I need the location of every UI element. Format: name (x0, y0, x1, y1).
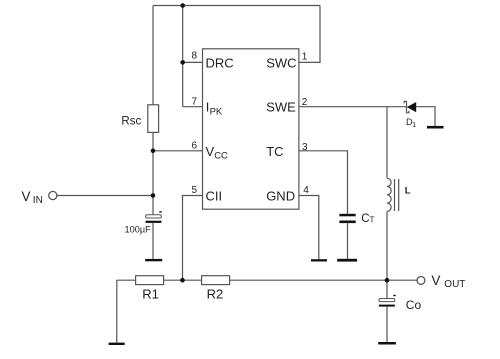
svg-text:SWC: SWC (266, 55, 296, 70)
svg-text:Co: Co (406, 298, 422, 312)
svg-text:7: 7 (192, 96, 198, 107)
svg-text:V: V (431, 273, 440, 288)
svg-text:CII: CII (206, 188, 223, 203)
svg-text:L: L (405, 185, 411, 196)
svg-text:6: 6 (192, 140, 198, 151)
svg-text:100µF: 100µF (125, 225, 152, 235)
svg-text:R1: R1 (142, 287, 159, 302)
svg-text:C: C (361, 213, 369, 225)
svg-text:V: V (22, 189, 31, 204)
svg-text:GND: GND (266, 188, 295, 203)
svg-text:OUT: OUT (444, 279, 465, 290)
svg-text:V: V (206, 144, 215, 159)
svg-text:5: 5 (192, 185, 198, 196)
svg-text:3: 3 (302, 142, 308, 153)
svg-text:SWE: SWE (266, 100, 296, 115)
svg-text:PK: PK (210, 106, 223, 117)
svg-text:8: 8 (192, 51, 198, 62)
svg-text:T: T (369, 214, 374, 224)
svg-text:DRC: DRC (206, 55, 234, 70)
svg-text:CC: CC (214, 151, 228, 162)
svg-text:2: 2 (302, 97, 308, 108)
svg-text:R2: R2 (207, 287, 224, 302)
svg-text:4: 4 (303, 185, 309, 196)
svg-text:TC: TC (266, 144, 283, 159)
svg-text:Rsc: Rsc (121, 115, 141, 127)
svg-text:IN: IN (33, 195, 43, 206)
svg-text:1: 1 (302, 52, 308, 63)
svg-text:1: 1 (412, 122, 416, 129)
